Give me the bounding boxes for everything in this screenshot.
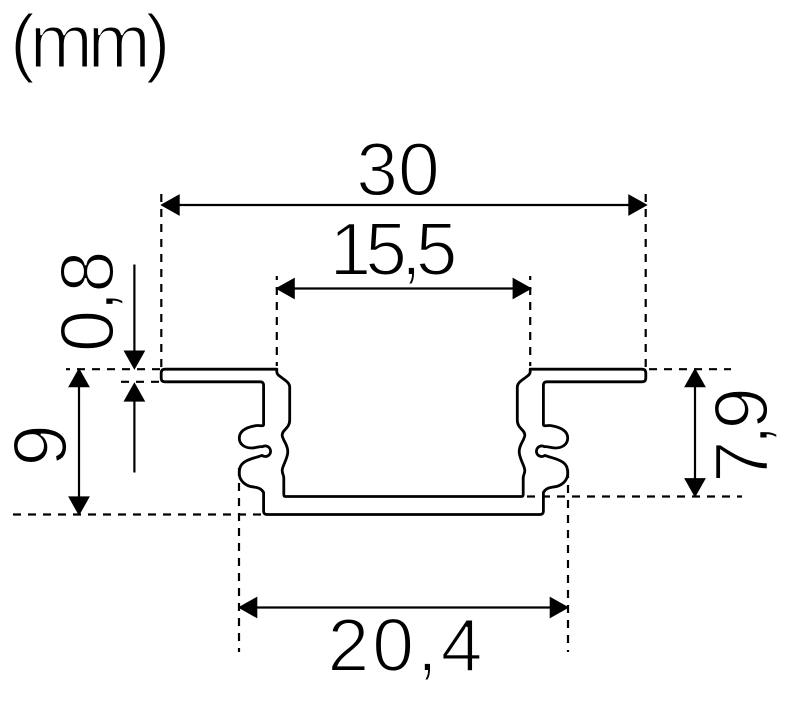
svg-text:15,5: 15,5 [330, 207, 455, 291]
svg-text:(mm): (mm) [10, 0, 166, 85]
svg-text:9: 9 [0, 424, 83, 466]
svg-text:7,9: 7,9 [700, 390, 785, 482]
svg-text:0,8: 0,8 [45, 252, 130, 352]
svg-text:30: 30 [356, 128, 439, 212]
svg-text:20,4: 20,4 [328, 603, 486, 687]
